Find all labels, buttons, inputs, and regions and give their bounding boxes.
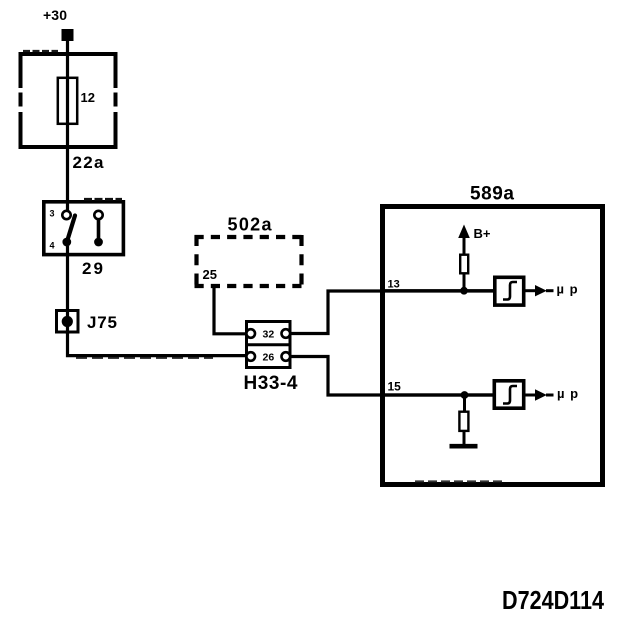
wire scan shadow relay box top <box>84 198 122 201</box>
svg-text:J75: J75 <box>87 313 117 332</box>
output arrow upper <box>535 285 547 296</box>
svg-text:502a: 502a <box>228 214 273 234</box>
schmitt trigger box lower <box>494 381 523 408</box>
resistor pull-down <box>459 412 468 431</box>
svg-text:4: 4 <box>50 241 55 251</box>
svg-text:D724D114: D724D114 <box>502 585 604 615</box>
wire scan shadow 589a bottom inner <box>415 480 502 482</box>
junction node pin13 line <box>460 287 468 295</box>
svg-text:µ p: µ p <box>557 386 579 401</box>
connector H33-4 divider <box>245 343 291 346</box>
terminal +30 square <box>62 29 74 41</box>
wire node to resistor lower <box>463 395 466 411</box>
fuse box 22a left dashed border <box>19 52 23 149</box>
wire relay to J75 <box>66 246 69 334</box>
schmitt trigger step symbol upper <box>503 282 517 300</box>
resistor pull-up <box>460 255 468 274</box>
output arrow lower <box>535 389 547 400</box>
wire scan shadow fuse box top <box>23 50 58 52</box>
wire pin 13 into schmitt trigger <box>385 289 493 292</box>
schmitt trigger box upper <box>495 277 524 305</box>
svg-text:B+: B+ <box>474 226 491 241</box>
relay contact open circle pin 3 <box>62 211 70 219</box>
svg-text:15: 15 <box>388 380 402 394</box>
wire scan shadow J75 run <box>76 357 213 359</box>
wire connector pin 26 to control unit pin 15 <box>290 357 493 396</box>
relay box 29 outline <box>44 202 124 255</box>
junction node pin15 line <box>461 391 469 399</box>
fuse S12 symbol <box>58 78 77 124</box>
connector pin circle 32 left <box>246 329 255 338</box>
junction box J75 outline <box>57 311 79 333</box>
component 502a dashed box <box>195 235 304 239</box>
wire schmitt to arrow lower <box>524 394 536 397</box>
svg-text:32: 32 <box>263 328 275 340</box>
svg-text:+30: +30 <box>43 7 67 23</box>
connector pin circle 26 left <box>246 352 255 361</box>
relay second pole open circle <box>94 211 102 219</box>
B+ arrow up <box>458 225 470 239</box>
connector pin circle 26 right <box>282 352 291 361</box>
control unit box 589a <box>383 207 603 485</box>
svg-text:25: 25 <box>203 267 217 282</box>
wire through fuse down to relay box <box>66 78 69 212</box>
wire resistor to node <box>463 274 466 291</box>
fuse box 22a right dashed border <box>114 52 118 149</box>
svg-text:22a: 22a <box>73 153 105 172</box>
svg-text:26: 26 <box>263 351 275 363</box>
relay second pole line <box>97 217 101 240</box>
svg-text:H33-4: H33-4 <box>244 373 298 394</box>
relay second pole dot <box>94 238 103 247</box>
wire pin 15 into schmitt trigger <box>385 393 493 396</box>
fuse box 22a top border <box>19 52 118 56</box>
svg-text:3: 3 <box>50 209 55 219</box>
wire 502a pin 25 down and right to connector pin 32 <box>214 288 247 334</box>
svg-text:µ p: µ p <box>557 281 579 296</box>
wire schmitt to arrow upper <box>524 289 536 292</box>
wire resistor to ground <box>463 432 466 447</box>
output stub lower <box>546 394 554 397</box>
wire J75 down and right to connector pin 26 <box>68 332 248 356</box>
svg-text:589a: 589a <box>470 184 514 205</box>
fuse box 22a bottom border <box>19 145 118 149</box>
output stub upper <box>546 289 554 292</box>
wire arrow to resistor <box>463 236 466 254</box>
wire connector pin 32 to control unit pin 13 <box>290 291 493 334</box>
wire +30 to fuse box <box>66 41 69 78</box>
svg-text:12: 12 <box>81 90 95 105</box>
connector H33-4 outline <box>247 322 291 368</box>
relay contact dot pin 4 <box>62 238 71 247</box>
schmitt trigger step symbol lower <box>503 386 517 404</box>
ground bar <box>450 444 478 449</box>
connector pin circle 32 right <box>282 329 291 338</box>
relay switch blade <box>67 216 75 241</box>
junction J75 dot <box>62 316 73 327</box>
svg-text:13: 13 <box>388 278 400 290</box>
